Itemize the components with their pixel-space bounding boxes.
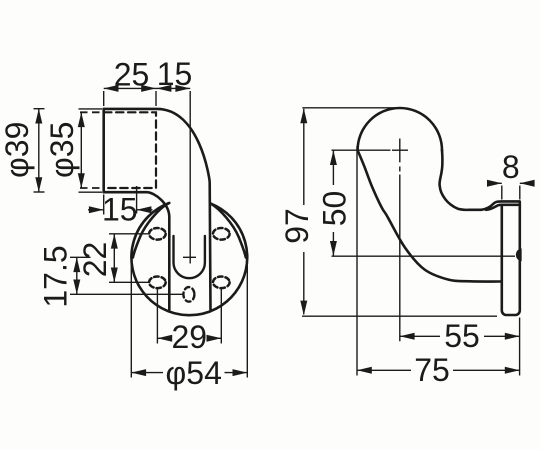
U-shaped socket opening inside post xyxy=(174,236,205,278)
17.5 dimension line xyxy=(76,257,78,294)
phi35/39 extensions left of pipe end (top) xyxy=(79,108,103,110)
phi54 extension left xyxy=(130,262,132,378)
arrow 15 right xyxy=(175,85,190,92)
svg-text:97: 97 xyxy=(279,208,315,244)
arrow 97 bottom xyxy=(300,301,307,316)
phi39 extension bottom-left xyxy=(79,191,103,193)
phi54 extension right xyxy=(246,262,248,378)
head circle top arc (pipe end) xyxy=(358,108,442,150)
arrow 29 left xyxy=(157,335,172,342)
arrow phi54 right xyxy=(233,369,248,376)
arrow 75 right xyxy=(505,367,520,374)
arrow lower15 right (points left) xyxy=(137,206,152,213)
75 left extension (long profile line) xyxy=(356,146,358,376)
phi54 dimension line segments xyxy=(131,372,247,374)
arrow 75 left xyxy=(357,367,372,374)
slot hole bottom-right xyxy=(213,277,230,289)
wall plate outline xyxy=(502,202,520,315)
arrow 50 bottom xyxy=(330,241,337,256)
8 arrow tails xyxy=(487,182,535,184)
arrow 22 top xyxy=(111,234,118,249)
8 left extension above plate xyxy=(501,186,503,200)
center screw hole xyxy=(183,287,194,302)
phi35 extension dashed-bottom level xyxy=(80,187,102,189)
arrow 29 right xyxy=(207,335,222,342)
slot hole bottom-left xyxy=(149,277,166,289)
29 extension right (x=221.3) xyxy=(220,289,222,344)
50 dimension line lower xyxy=(332,232,334,256)
arm top S-curve lower (front face joint) xyxy=(486,205,518,210)
55 left extension (from center down) xyxy=(399,175,401,342)
arrow 17.5 top xyxy=(73,257,80,272)
extension line bore right (x=156) above pipe xyxy=(155,91,157,106)
pipe socket bottom outline + elbow inner curve xyxy=(104,192,170,310)
97 top extension line xyxy=(302,107,397,109)
50 top extension xyxy=(332,149,391,151)
29 dimension line segments xyxy=(157,337,221,339)
svg-text:φ54: φ54 xyxy=(166,355,222,391)
svg-text:15: 15 xyxy=(102,192,138,228)
pipe socket open end (left vertical) xyxy=(102,109,105,192)
arrow phi54 left xyxy=(131,369,146,376)
centerline / extension x=190 xyxy=(189,91,191,264)
lower 15 arrow tails xyxy=(88,209,153,211)
dashed inner bore (phi35) xyxy=(104,112,156,188)
phi35 extension dashed-top level xyxy=(80,111,102,113)
extension line pipe end (x=103.7) above pipe xyxy=(103,91,105,106)
svg-text:15: 15 xyxy=(157,56,193,92)
slot hole top-left xyxy=(149,228,166,240)
flange center cross horizontal xyxy=(183,256,196,258)
8 right extension above plate xyxy=(519,186,521,200)
97 dimension line upper xyxy=(303,109,305,205)
97 bottom extension line xyxy=(302,315,497,317)
svg-text:17.5: 17.5 xyxy=(38,245,74,307)
arrow 8 left (points right) xyxy=(487,180,502,187)
arrow 15 left xyxy=(157,85,172,92)
arm top S-curve upper to plate top xyxy=(481,201,519,209)
bell flare left xyxy=(133,203,168,257)
17.5 top tick at flange center height xyxy=(70,256,91,258)
arrow 8 right (points left) xyxy=(520,180,535,187)
50 bottom extension (to wall screw) xyxy=(332,255,516,257)
55 dimension line segments xyxy=(400,335,520,337)
arrow 22 bottom xyxy=(111,268,118,283)
arrow lower15 left (points right) xyxy=(89,206,104,213)
svg-text:50: 50 xyxy=(317,191,353,227)
phi39 tick top xyxy=(34,108,45,110)
lower 15 extension (x=103.7) xyxy=(103,195,105,215)
arrow 25 left xyxy=(104,85,119,92)
svg-text:29: 29 xyxy=(172,319,208,355)
arrow 97 top xyxy=(300,109,307,124)
22 dimension line xyxy=(113,234,115,282)
centerline dash below cross xyxy=(399,167,401,172)
slot hole top-right xyxy=(213,228,230,240)
pipe center cross: horizontal xyxy=(392,149,408,151)
svg-text:φ35: φ35 xyxy=(44,122,80,178)
phi39 tick bottom xyxy=(34,191,45,193)
flange circle (phi54), top occluded by post xyxy=(131,203,247,315)
arrow phi39 bottom xyxy=(35,177,42,192)
svg-text:25: 25 xyxy=(114,57,150,93)
svg-text:75: 75 xyxy=(414,352,450,388)
head left side + concave underside curve xyxy=(358,150,502,281)
arrow phi35 bottom xyxy=(78,173,85,188)
22 top extension xyxy=(109,233,149,235)
plate back extension below (for 55/75) xyxy=(519,318,521,376)
29 extension left (x=157.4) xyxy=(156,289,158,344)
arrow phi35 top xyxy=(78,112,85,127)
pipe socket top outline + elbow outer curve xyxy=(104,109,211,311)
dimension line 25/15 at y=88.4 xyxy=(104,87,191,89)
svg-text:8: 8 xyxy=(502,149,520,185)
svg-text:22: 22 xyxy=(77,242,113,278)
arrow 50 top xyxy=(330,150,337,165)
22 bottom extension xyxy=(109,281,149,283)
pipe center cross: vertical xyxy=(399,139,401,163)
17.5 bottom extension to center hole xyxy=(70,293,183,295)
wall screw hole on plate back edge xyxy=(517,249,521,260)
head right side and arm top xyxy=(440,150,481,210)
75 dimension line segments xyxy=(357,369,520,371)
50 dimension line upper xyxy=(332,150,334,185)
arrow phi39 top xyxy=(35,109,42,124)
svg-text:φ39: φ39 xyxy=(0,122,35,178)
svg-text:55: 55 xyxy=(444,318,480,354)
97 dimension line lower xyxy=(303,252,305,314)
phi39 dimension line xyxy=(38,109,40,192)
arrow 55 right xyxy=(505,333,520,340)
arrow 55 left xyxy=(400,333,415,340)
arrow 17.5 bottom xyxy=(73,280,80,295)
phi35 dimension line xyxy=(80,112,82,188)
arrow 25 right xyxy=(141,85,156,92)
lower 15 extension (x=136.6) xyxy=(136,186,138,214)
bell flare right xyxy=(210,203,245,257)
